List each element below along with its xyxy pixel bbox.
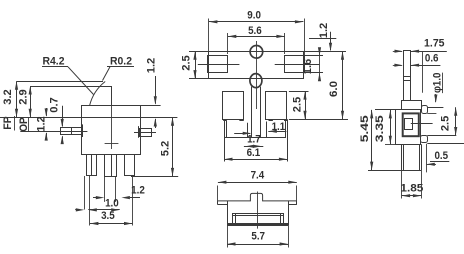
- svg-text:6.1: 6.1: [247, 147, 261, 159]
- svg-text:9.0: 9.0: [247, 9, 261, 21]
- svg-text:1.2: 1.2: [36, 116, 48, 132]
- svg-text:1.6: 1.6: [302, 59, 314, 75]
- svg-text:2.5: 2.5: [440, 116, 452, 132]
- svg-text:5.2: 5.2: [160, 141, 172, 157]
- svg-text:0.5: 0.5: [434, 150, 448, 162]
- svg-text:1.2: 1.2: [318, 23, 330, 39]
- svg-text:R0.2: R0.2: [110, 55, 132, 67]
- svg-text:0.7: 0.7: [49, 97, 61, 113]
- svg-text:5.6: 5.6: [248, 25, 262, 37]
- svg-text:3.35: 3.35: [374, 115, 386, 142]
- svg-text:φ1.0: φ1.0: [431, 72, 443, 93]
- svg-text:2.9: 2.9: [18, 89, 30, 105]
- svg-text:2.5: 2.5: [181, 55, 193, 71]
- svg-text:1.2: 1.2: [146, 58, 158, 74]
- svg-text:7.4: 7.4: [251, 169, 265, 181]
- svg-text:1.7: 1.7: [247, 134, 261, 146]
- svg-text:1.85: 1.85: [400, 183, 423, 195]
- svg-text:5.7: 5.7: [251, 231, 265, 243]
- svg-text:3.2: 3.2: [2, 89, 14, 105]
- svg-text:6.0: 6.0: [328, 81, 340, 97]
- svg-text:3.5: 3.5: [101, 210, 115, 222]
- svg-text:1.75: 1.75: [424, 37, 445, 49]
- svg-text:0.6: 0.6: [425, 53, 439, 65]
- svg-text:1.0: 1.0: [105, 198, 119, 210]
- svg-text:2.5: 2.5: [292, 97, 304, 113]
- svg-text:R4.2: R4.2: [43, 55, 65, 67]
- svg-text:5.45: 5.45: [359, 115, 371, 142]
- svg-text:1.2: 1.2: [131, 185, 145, 197]
- svg-text:FP: FP: [2, 116, 14, 130]
